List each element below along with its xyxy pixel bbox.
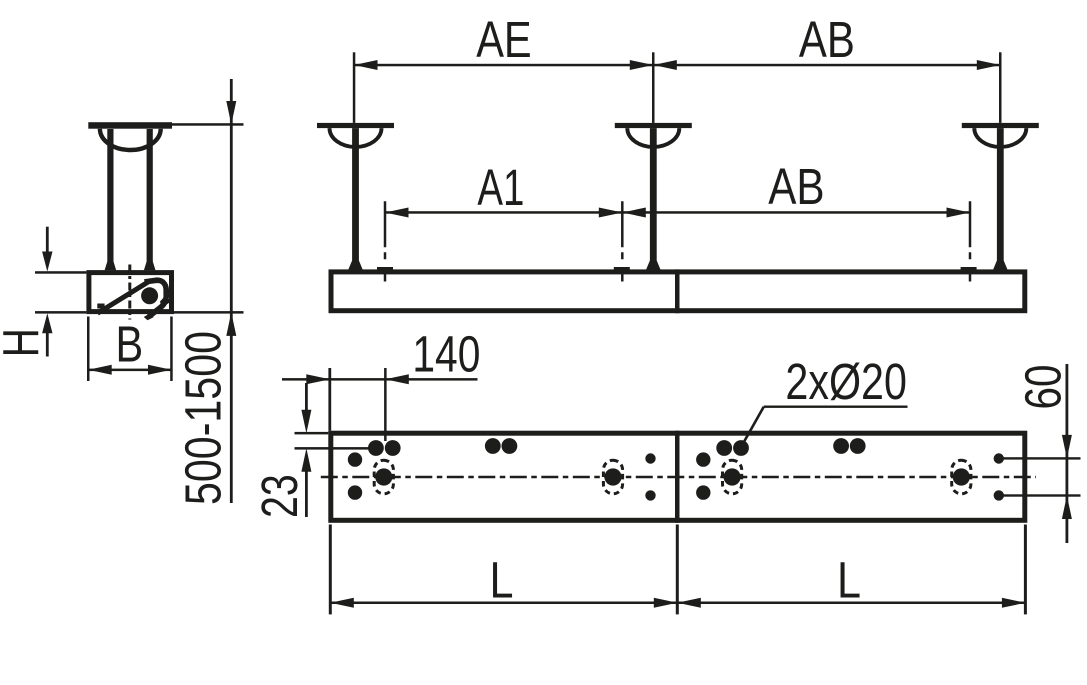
svg-text:L: L	[837, 552, 861, 609]
svg-text:H: H	[0, 328, 50, 357]
svg-text:2xØ20: 2xØ20	[785, 353, 907, 410]
svg-text:500-1500: 500-1500	[175, 331, 232, 505]
svg-text:23: 23	[251, 474, 308, 518]
svg-text:L: L	[490, 552, 514, 609]
svg-text:AB: AB	[799, 11, 855, 68]
svg-text:B: B	[116, 316, 144, 373]
svg-text:60: 60	[1014, 365, 1071, 410]
svg-text:AE: AE	[476, 11, 532, 68]
svg-text:A1: A1	[477, 159, 524, 216]
svg-text:AB: AB	[768, 158, 824, 215]
svg-text:140: 140	[412, 326, 480, 383]
